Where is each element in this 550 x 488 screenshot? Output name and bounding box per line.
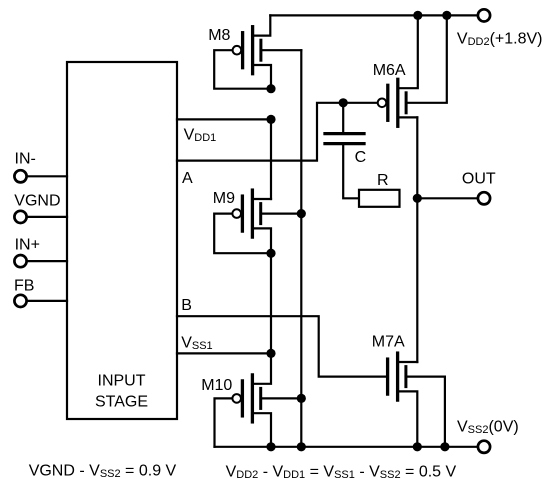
wire VDD1 xyxy=(177,118,271,120)
svg-text:VDD2 - VDD1 = VSS1 - VSS2 = 0.: VDD2 - VDD1 = VSS1 - VSS2 = 0.5 V xyxy=(226,464,457,482)
svg-text:FB: FB xyxy=(14,278,34,295)
input stage box xyxy=(67,62,177,419)
svg-text:OUT: OUT xyxy=(462,170,496,187)
wire IN- lead xyxy=(28,175,67,177)
node junction C top / M6A gate xyxy=(339,98,348,107)
wire node B to M7A gate xyxy=(177,316,388,376)
wire OUT xyxy=(417,197,477,199)
wire bottom rail VSS2 xyxy=(215,446,477,448)
resistor R xyxy=(359,190,400,207)
svg-text:VDD2(+1.8V): VDD2(+1.8V) xyxy=(457,30,543,48)
wire IN+ lead xyxy=(28,260,67,262)
capacitor C xyxy=(325,103,364,199)
svg-text:STAGE: STAGE xyxy=(95,394,148,411)
wire M6A drain to M7A drain vertical xyxy=(416,117,418,362)
svg-text:IN+: IN+ xyxy=(15,237,40,254)
wire VGND lead xyxy=(28,216,67,218)
svg-text:M10: M10 xyxy=(201,377,232,394)
svg-text:A: A xyxy=(182,170,193,187)
svg-text:R: R xyxy=(377,172,389,189)
node junction M8 gate-source tie xyxy=(266,84,275,93)
svg-text:INPUT: INPUT xyxy=(98,372,146,389)
node junction bottom rail M7A source xyxy=(413,442,422,451)
node junction bottom rail M7A bulk xyxy=(440,442,449,451)
wire trunk M9 source to VSS1 xyxy=(270,253,272,353)
svg-text:B: B xyxy=(181,297,192,314)
node junction bottom rail M10 source xyxy=(266,442,275,451)
transistor M9 xyxy=(214,190,301,253)
terminal OUT xyxy=(478,192,490,204)
node junction VDD1 xyxy=(266,115,275,124)
svg-text:VGND - VSS2 = 0.9 V: VGND - VSS2 = 0.9 V xyxy=(29,462,177,480)
svg-text:M9: M9 xyxy=(213,190,235,207)
wire FB lead xyxy=(28,300,67,302)
svg-text:VDD1: VDD1 xyxy=(184,127,217,145)
wire trunk VDD1 to M9 drain xyxy=(270,119,272,199)
svg-text:VSS1: VSS1 xyxy=(181,335,212,353)
transistor M6A xyxy=(378,15,447,126)
wire top rail VDD2 xyxy=(270,14,477,16)
transistor M7A xyxy=(388,353,445,447)
transistor M8 xyxy=(214,15,301,88)
wire node A to M6A gate xyxy=(177,103,376,161)
node junction M10 bulk xyxy=(297,394,306,403)
wire bulk bus vertical xyxy=(300,50,302,447)
svg-text:VGND: VGND xyxy=(14,193,60,210)
svg-text:IN-: IN- xyxy=(15,150,36,167)
svg-text:M6A: M6A xyxy=(373,62,406,79)
svg-text:M8: M8 xyxy=(208,27,230,44)
transistor M10 xyxy=(215,353,302,446)
terminal IN- xyxy=(14,170,26,182)
node junction bottom rail bulk bus xyxy=(297,442,306,451)
terminal FB xyxy=(14,295,26,307)
node junction top rail M6A bulk xyxy=(442,11,451,20)
terminal VSS2 xyxy=(478,441,490,453)
node junction VSS1 xyxy=(266,349,275,358)
wire VSS1 xyxy=(177,352,271,354)
svg-text:VSS2(0V): VSS2(0V) xyxy=(457,419,519,437)
node junction M9 bulk xyxy=(297,209,306,218)
terminal VGND xyxy=(14,211,26,223)
terminal IN+ xyxy=(14,255,26,267)
svg-text:C: C xyxy=(355,149,367,166)
node junction OUT xyxy=(413,194,422,203)
svg-text:M7A: M7A xyxy=(372,334,405,351)
terminal VDD2 xyxy=(478,9,490,21)
node junction M9 gate-source tie xyxy=(266,249,275,258)
node junction top rail M6A source xyxy=(413,11,422,20)
